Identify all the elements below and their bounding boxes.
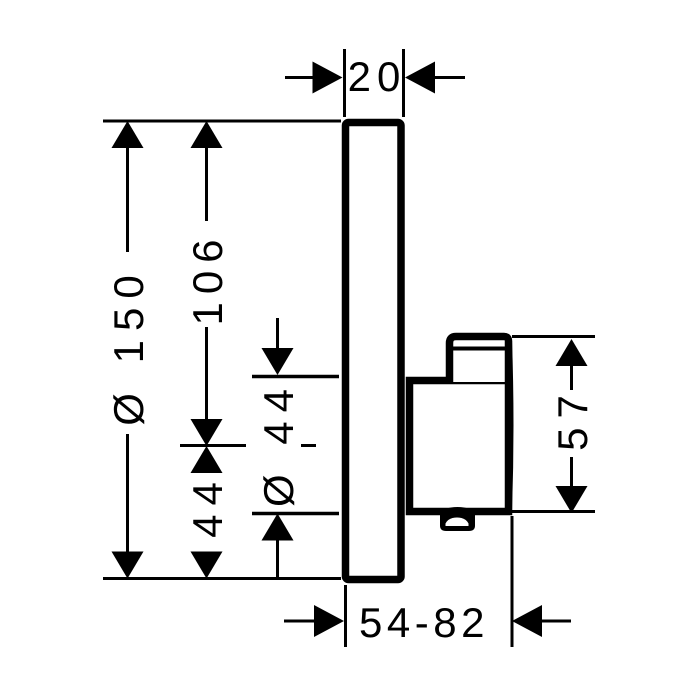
svg-text:44: 44 — [184, 473, 231, 538]
svg-text:20: 20 — [348, 53, 407, 100]
svg-text:Ø 150: Ø 150 — [105, 266, 152, 425]
svg-text:54-82: 54-82 — [359, 599, 489, 646]
svg-text:Ø 44: Ø 44 — [255, 380, 302, 507]
svg-text:57: 57 — [549, 386, 596, 451]
svg-text:106: 106 — [184, 231, 231, 325]
